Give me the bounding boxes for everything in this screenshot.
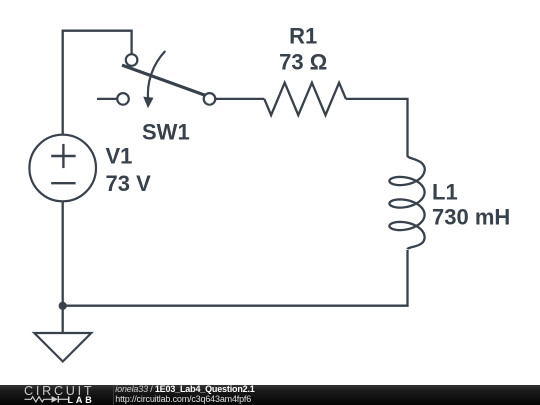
junction node: [59, 302, 67, 310]
svg-text:73 V: 73 V: [106, 171, 152, 196]
wire resistor to inductor: [346, 99, 408, 157]
svg-text:SW1: SW1: [142, 120, 190, 145]
footer meta text: [115, 384, 254, 404]
circuitlab logo symbol: [24, 394, 69, 405]
svg-text:73 Ω: 73 Ω: [279, 50, 327, 75]
separator: [113, 385, 114, 405]
inductor L1: [389, 156, 424, 249]
svg-text:R1: R1: [289, 23, 317, 48]
wire switch common to resistor: [215, 98, 264, 100]
footer bar: [0, 385, 540, 405]
wire from V1 top to switch: [63, 31, 132, 135]
circuitlab logo word: [24, 385, 94, 397]
switch SW1 arrow arc: [148, 51, 165, 101]
svg-text:V1: V1: [106, 144, 133, 169]
voltage source V1: [29, 135, 96, 202]
wire V1 bottom: [62, 202, 64, 306]
svg-text:730 mH: 730 mH: [432, 204, 510, 229]
switch SW1 contact circles: [117, 54, 215, 104]
switch SW1 arrowhead: [143, 97, 153, 109]
svg-text:L1: L1: [432, 179, 458, 204]
resistor R1: [264, 83, 346, 115]
circuitlab logo LAB: [68, 396, 95, 405]
switch SW1 lever: [122, 65, 208, 96]
V1 minus sign: [51, 182, 75, 184]
wire to ground: [62, 306, 64, 333]
wire inductor to bottom rail: [63, 250, 408, 306]
wire switch throw-2 stub: [97, 98, 118, 100]
ground: [34, 333, 91, 362]
V1 plus sign: [51, 144, 75, 168]
